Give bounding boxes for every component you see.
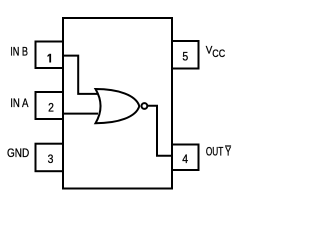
pin 5 box <box>172 41 199 69</box>
pin 2 box <box>36 92 64 119</box>
pin 3 box <box>36 144 64 172</box>
svg-text:5: 5 <box>182 50 188 64</box>
svg-text:3: 3 <box>48 152 54 166</box>
svg-text:2: 2 <box>48 101 54 115</box>
NOR output inversion bubble <box>142 103 148 109</box>
svg-text:4: 4 <box>182 152 188 166</box>
svg-text:Y: Y <box>225 147 231 159</box>
wire pin2 to NOR bottom input <box>63 113 98 115</box>
pin 4 box <box>172 145 199 171</box>
svg-text:GND: GND <box>7 148 29 160</box>
wire pin1 to NOR top input <box>63 56 98 94</box>
pin 1 box <box>36 42 64 69</box>
overline over Y <box>225 145 231 146</box>
svg-text:OUT: OUT <box>206 147 223 159</box>
wire NOR output to pin4 <box>148 106 173 156</box>
NOR gate U1 <box>96 89 140 123</box>
svg-text:IN B: IN B <box>10 47 28 59</box>
svg-text:CC: CC <box>212 48 225 60</box>
IC body U1 <box>63 18 172 189</box>
svg-text:IN A: IN A <box>10 98 28 110</box>
pin 1 number <box>48 54 52 63</box>
